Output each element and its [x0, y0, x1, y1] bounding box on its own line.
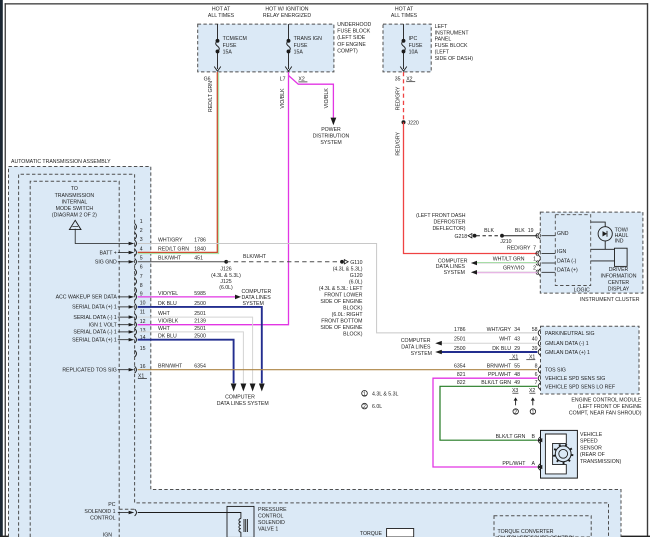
svg-text:TCM/ECM: TCM/ECM — [223, 36, 247, 42]
tow/haul indicator lamp loop — [591, 222, 615, 261]
svg-text:7: 7 — [533, 246, 536, 252]
stub arrow into pin 4 — [118, 252, 129, 254]
wire WHT 2501 pin13 down — [138, 332, 244, 383]
svg-text:BATT +: BATT + — [100, 250, 117, 256]
pin IGN 7 — [538, 250, 540, 257]
svg-text:G218: G218 — [454, 234, 467, 240]
svg-text:(LEFT FRONT DASH: (LEFT FRONT DASH — [416, 213, 466, 219]
svg-text:35: 35 — [395, 77, 401, 83]
svg-text:WHT/LT GRN: WHT/LT GRN — [493, 256, 525, 262]
svg-text:ALL TIMES: ALL TIMES — [208, 13, 235, 19]
up arrow 2 (x2 col) — [532, 400, 534, 406]
svg-text:WHT/GRY: WHT/GRY — [487, 327, 512, 333]
svg-text:TRANSMISSION: TRANSMISSION — [55, 193, 95, 199]
junction J220 — [402, 120, 406, 124]
svg-text:MODE SWITCH: MODE SWITCH — [56, 206, 94, 212]
fuse TCM/ECM 15A — [214, 24, 221, 71]
wire BLK solid J210 to cluster GND — [502, 235, 537, 237]
pin 5 arc — [135, 258, 137, 265]
svg-text:J210: J210 — [500, 239, 511, 245]
svg-text:J126: J126 — [220, 267, 231, 273]
svg-text:15: 15 — [140, 346, 146, 352]
svg-text:ALL TIMES: ALL TIMES — [391, 13, 418, 19]
svg-text:L7: L7 — [280, 77, 286, 83]
automatic transmission assembly: blue fill region — [9, 167, 622, 537]
wire RED/GRY solid from J220 to cluster IGN pin — [404, 122, 538, 253]
pin stub arrows — [118, 251, 135, 372]
svg-text:10: 10 — [140, 301, 146, 307]
svg-text:TORQUE: TORQUE — [360, 531, 383, 537]
svg-text:SOLENOID: SOLENOID — [258, 520, 285, 526]
svg-text:GMLAN DATA (-) 1: GMLAN DATA (-) 1 — [545, 341, 589, 347]
svg-text:G120: G120 — [350, 273, 363, 279]
svg-text:FUSE BLOCK: FUSE BLOCK — [435, 43, 468, 49]
svg-text:VIO/YEL: VIO/YEL — [158, 291, 178, 297]
svg-text:6: 6 — [535, 372, 538, 378]
svg-text:48: 48 — [514, 372, 520, 378]
vehicle speed sensor outer box — [541, 430, 578, 478]
svg-text:WHT/GRY: WHT/GRY — [158, 237, 183, 243]
svg-text:SERIAL DATA (+) 1: SERIAL DATA (+) 1 — [72, 338, 117, 344]
fuse TRANS IGN 15A — [285, 24, 292, 71]
fuse IPC 10A — [400, 24, 407, 71]
pin signal name labels — [56, 250, 118, 373]
svg-text:13: 13 — [140, 328, 146, 334]
svg-text:2: 2 — [363, 404, 366, 410]
up arrow 1 (x3 col) — [515, 400, 517, 406]
wire GRY/VIO to DATA (+) — [476, 271, 537, 273]
pin 11 arc — [135, 314, 137, 321]
stub arrow into pin 12 — [118, 324, 129, 326]
svg-text:DK BLU: DK BLU — [158, 334, 177, 340]
svg-text:(REAR OF: (REAR OF — [580, 452, 605, 458]
svg-text:(LEFT: (LEFT — [435, 50, 450, 56]
svg-text:FUSE BLOCK: FUSE BLOCK — [337, 29, 370, 35]
logic inner dashed box — [555, 215, 590, 286]
svg-text:RED/GRY: RED/GRY — [507, 246, 531, 252]
svg-text:INSTRUMENT CLUSTER: INSTRUMENT CLUSTER — [580, 297, 640, 303]
wire WHT 2501 pin11 down — [138, 317, 253, 383]
svg-text:BLOCK): BLOCK) — [343, 331, 363, 337]
wire WHT/GRY 1786 pin3 to ECM park/neutral — [138, 244, 538, 333]
svg-text:SYSTEM: SYSTEM — [320, 140, 341, 146]
svg-text:BLK/WHT: BLK/WHT — [243, 254, 267, 260]
pin DATA (+) 2 — [538, 269, 540, 276]
engine control module dashed box — [541, 326, 640, 394]
svg-text:RED/GRY: RED/GRY — [395, 131, 401, 155]
svg-text:PPL/WHT: PPL/WHT — [502, 461, 526, 467]
svg-text:SERIAL DATA (-) 1: SERIAL DATA (-) 1 — [73, 315, 117, 321]
svg-text:(6.0L: RIGHT: (6.0L: RIGHT — [332, 312, 364, 318]
svg-text:FUSE: FUSE — [294, 43, 308, 49]
wire BLK/LT GRN 822 to VSS pin B — [440, 386, 537, 440]
svg-text:6.0L: 6.0L — [372, 404, 382, 410]
pin 8 arc — [135, 287, 137, 294]
wire WHT 2501 GMLAN(-) from computer data lines — [441, 342, 537, 344]
svg-text:GND: GND — [557, 231, 569, 237]
svg-text:DRIVER: DRIVER — [609, 267, 629, 273]
svg-text:4.3L & 5.3L: 4.3L & 5.3L — [372, 391, 398, 397]
svg-text:FRONT BOTTOM: FRONT BOTTOM — [321, 318, 362, 324]
wire PPL/WHT 821 to VSS pin A — [433, 378, 537, 467]
label: to transmission internal mode switch — [52, 186, 97, 218]
svg-text:PRESSURE: PRESSURE — [258, 507, 287, 513]
svg-text:PARK/NEUTRAL SIG: PARK/NEUTRAL SIG — [545, 331, 595, 337]
svg-text:WHT: WHT — [158, 311, 171, 317]
transmission inner dashed box 2 (mode switch area) — [30, 181, 119, 537]
svg-text:SIDE OF DASH): SIDE OF DASH) — [435, 56, 474, 62]
svg-text:INFORMATION: INFORMATION — [601, 274, 637, 280]
svg-text:CONTROL: CONTROL — [90, 515, 115, 521]
svg-text:INSTRUMENT: INSTRUMENT — [435, 30, 470, 36]
svg-text:INTERNAL: INTERNAL — [62, 199, 88, 205]
wire to pressure control solenoid valve 1 — [138, 513, 241, 519]
svg-text:8: 8 — [535, 363, 538, 369]
svg-text:IGN: IGN — [103, 533, 112, 537]
svg-text:15A: 15A — [294, 50, 304, 56]
svg-text:8: 8 — [140, 283, 143, 289]
svg-text:58: 58 — [532, 327, 538, 333]
underlines for X labels — [509, 359, 518, 361]
svg-text:15A: 15A — [223, 50, 233, 56]
circled 2 — [513, 409, 518, 414]
svg-text:SERIAL DATA (+) 1: SERIAL DATA (+) 1 — [72, 305, 117, 311]
stub arrow into pin 16 — [118, 369, 129, 371]
svg-text:1786: 1786 — [454, 327, 466, 333]
svg-text:(LEFT FRONT OF ENGINE: (LEFT FRONT OF ENGINE — [578, 404, 642, 410]
stub arrow into pin 5 — [118, 261, 129, 263]
svg-text:(4.3L & 5.3L: LEFT: (4.3L & 5.3L: LEFT — [319, 286, 363, 292]
pin 15 arc — [135, 350, 137, 357]
svg-text:BRN/WHT: BRN/WHT — [487, 363, 512, 369]
svg-text:SIDE OF ENGINE: SIDE OF ENGINE — [320, 325, 363, 331]
svg-text:7: 7 — [140, 274, 143, 280]
svg-text:DATA (-): DATA (-) — [557, 258, 577, 264]
svg-text:1786: 1786 — [194, 237, 206, 243]
svg-text:ACC WAKEUP SER DATA: ACC WAKEUP SER DATA — [56, 295, 118, 301]
pin 13 arc — [135, 329, 137, 336]
svg-text:19: 19 — [528, 228, 534, 234]
ECM wire/pin number labels — [454, 327, 538, 394]
svg-text:(4.3L & 5.3L): (4.3L & 5.3L) — [211, 273, 241, 279]
svg-text:IGN: IGN — [557, 249, 566, 255]
off-page triangle symbol A — [69, 220, 81, 229]
page frame: left black bar — [0, 0, 3, 537]
svg-text:IGN 1 VOLT: IGN 1 VOLT — [89, 323, 118, 329]
svg-text:FRONT LOWER: FRONT LOWER — [324, 292, 362, 298]
wire name/number labels at connector — [158, 237, 206, 369]
svg-text:6354: 6354 — [454, 363, 466, 369]
svg-text:DEFLECTOR): DEFLECTOR) — [432, 226, 465, 232]
legend circled 2 — [362, 403, 368, 409]
svg-text:COMPUTER: COMPUTER — [401, 338, 431, 344]
svg-text:COMPT): COMPT) — [337, 49, 358, 55]
svg-text:J125: J125 — [220, 279, 231, 285]
svg-text:RED/GRY: RED/GRY — [395, 86, 401, 110]
ground G110 text block — [319, 260, 363, 338]
svg-text:UNDERHOOD: UNDERHOOD — [337, 22, 371, 28]
svg-text:7: 7 — [535, 380, 538, 386]
svg-text:1: 1 — [140, 219, 143, 225]
svg-text:RELAY ENERGIZED: RELAY ENERGIZED — [263, 13, 311, 19]
svg-text:VIO/BLK: VIO/BLK — [158, 319, 179, 325]
svg-text:2: 2 — [140, 228, 143, 234]
svg-text:TOS SIG: TOS SIG — [545, 368, 566, 374]
wire BLK/WHT 451 pin5 to J126 — [138, 261, 227, 263]
svg-text:2501: 2501 — [194, 326, 206, 332]
svg-text:COMPUTER: COMPUTER — [242, 289, 272, 295]
svg-text:TRANS IGN: TRANS IGN — [294, 36, 322, 42]
wire WHT/LT GRN to DATA (-) — [476, 262, 537, 264]
svg-text:IND: IND — [615, 239, 624, 245]
svg-text:PC: PC — [108, 502, 115, 508]
pin 14 arc — [135, 336, 137, 343]
svg-text:10A: 10A — [409, 50, 419, 56]
svg-text:6: 6 — [140, 265, 143, 271]
svg-text:COMPT, NEAR FAN SHROUD): COMPT, NEAR FAN SHROUD) — [569, 411, 642, 417]
svg-text:B: B — [532, 434, 536, 440]
svg-text:DATA LINES: DATA LINES — [242, 295, 272, 301]
underhood fuse block box — [198, 24, 334, 72]
svg-text:RED/LT GRN: RED/LT GRN — [208, 81, 214, 112]
wire BLK/WHT dashed J126 to G110 — [226, 261, 337, 263]
svg-text:BLK/LT GRN: BLK/LT GRN — [496, 434, 526, 440]
svg-text:POWER: POWER — [321, 127, 341, 133]
svg-text:DISPLAY: DISPLAY — [608, 287, 630, 293]
wire BRN/WHT 6354 pin16 to ECM — [138, 369, 538, 371]
svg-text:WHT: WHT — [499, 337, 512, 343]
svg-text:CENTER: CENTER — [608, 280, 630, 286]
svg-text:822: 822 — [457, 380, 466, 386]
transmission connector pins (C1) — [135, 219, 146, 373]
svg-text:LOGIC: LOGIC — [574, 288, 590, 294]
pin 6 arc — [135, 269, 137, 276]
pc solenoid pin arc — [135, 509, 137, 516]
svg-text:43: 43 — [514, 337, 520, 343]
svg-text:2: 2 — [514, 409, 517, 415]
page frame: thin border lines — [5, 3, 649, 4]
svg-text:1: 1 — [533, 256, 536, 262]
svg-text:4: 4 — [140, 247, 143, 253]
pin GND 19 — [538, 232, 540, 239]
svg-text:ENGINE CONTROL MODULE: ENGINE CONTROL MODULE — [571, 398, 642, 404]
svg-text:COMPUTER: COMPUTER — [225, 394, 255, 400]
svg-text:BLOCK): BLOCK) — [343, 305, 363, 311]
svg-text:11: 11 — [140, 310, 145, 316]
svg-text:SENSOR: SENSOR — [580, 445, 602, 451]
svg-text:(6.0L): (6.0L) — [349, 279, 363, 285]
svg-text:HOT AT: HOT AT — [212, 6, 231, 12]
automatic transmission assembly: outer dashed boundary — [9, 167, 622, 537]
wire RED/GRY dashed from IPC fuse to J220 — [403, 72, 405, 122]
pressure control solenoid valve 1 box — [227, 506, 254, 537]
svg-text:5: 5 — [140, 256, 143, 262]
wire DK BLU 2500 pin10 down — [138, 307, 262, 383]
svg-text:REPLICATED TOS SIG: REPLICATED TOS SIG — [62, 368, 116, 374]
svg-text:TORQUE CONVERTER: TORQUE CONVERTER — [498, 529, 554, 535]
svg-text:VIO/BLK: VIO/BLK — [280, 88, 286, 109]
solenoid coil — [239, 519, 248, 537]
svg-text:12: 12 — [140, 319, 146, 325]
svg-text:FUSE: FUSE — [223, 43, 237, 49]
instrument cluster dashed box — [540, 212, 643, 293]
svg-text:SYSTEM: SYSTEM — [444, 270, 465, 276]
svg-text:GMLAN DATA (+) 1: GMLAN DATA (+) 1 — [545, 350, 590, 356]
svg-text:DEFROSTER: DEFROSTER — [434, 220, 466, 226]
wire VIO/BLK branch to power distribution — [289, 76, 334, 119]
left instrument panel fuse block box — [383, 24, 431, 72]
svg-text:2500: 2500 — [194, 301, 206, 307]
svg-text:BLK/LT GRN: BLK/LT GRN — [481, 380, 511, 386]
tow/haul lamp circle — [598, 227, 612, 241]
svg-text:OF ENGINE: OF ENGINE — [337, 42, 366, 48]
svg-text:PPL/WHT: PPL/WHT — [488, 372, 512, 378]
svg-text:(DIAGRAM 2 OF 2): (DIAGRAM 2 OF 2) — [52, 213, 97, 219]
svg-text:HOT W/ IGNITION: HOT W/ IGNITION — [265, 6, 308, 12]
svg-text:A: A — [532, 461, 536, 467]
svg-text:(6.0L): (6.0L) — [219, 285, 233, 291]
svg-text:DISTRIBUTION: DISTRIBUTION — [313, 134, 350, 140]
svg-text:GRY/VIO: GRY/VIO — [503, 266, 525, 272]
pin 16 arc — [135, 366, 137, 373]
svg-text:BLK: BLK — [515, 228, 525, 234]
svg-text:3: 3 — [140, 237, 143, 243]
vehicle speed sensor inner C bracket — [545, 434, 566, 474]
stub arrow into pin 10 — [118, 306, 129, 308]
svg-text:DK BLU: DK BLU — [158, 301, 177, 307]
svg-text:34: 34 — [514, 327, 520, 333]
svg-text:BLK: BLK — [484, 228, 494, 234]
wire VIO/BLK from TRANS IGN fuse to pin 12 — [138, 72, 289, 325]
junction J210 — [500, 234, 504, 238]
wire DK BLU 2500 GMLAN(+) from computer data lines — [441, 351, 537, 353]
svg-text:SIDE OF ENGINE: SIDE OF ENGINE — [320, 299, 363, 305]
pin DATA (-) 1 — [538, 260, 540, 267]
svg-text:2501: 2501 — [454, 337, 466, 343]
pc solenoid stub arrow — [118, 512, 129, 514]
svg-text:BRN/WHT: BRN/WHT — [158, 364, 183, 370]
svg-text:2500: 2500 — [194, 334, 206, 340]
svg-text:VIO/BLK: VIO/BLK — [324, 88, 330, 109]
pin 2 arc — [135, 233, 137, 240]
svg-text:2139: 2139 — [194, 319, 206, 325]
wire VIO/YEL 5985 pin9 to computer data lines — [138, 296, 236, 298]
stub arrow into pin 11 — [118, 316, 129, 318]
dashed stub near solenoid pin area — [119, 508, 134, 510]
svg-text:IPC: IPC — [409, 36, 418, 42]
svg-text:SPEED: SPEED — [580, 439, 598, 445]
svg-text:G110: G110 — [350, 260, 362, 266]
svg-text:55: 55 — [514, 363, 520, 369]
svg-text:SYSTEM: SYSTEM — [411, 351, 432, 357]
svg-text:16: 16 — [140, 364, 146, 370]
svg-text:2501: 2501 — [194, 311, 206, 317]
svg-text:SERIAL DATA (-) 1: SERIAL DATA (-) 1 — [73, 330, 117, 336]
VSS pin arcs and arrows — [538, 437, 540, 444]
ECM pin arcs — [538, 330, 540, 390]
svg-text:VEHICLE SPD SENS SIG: VEHICLE SPD SENS SIG — [545, 376, 605, 382]
wire BLK dashed G218 to J210 — [477, 235, 501, 237]
transmission inner dashed box 1 — [19, 174, 609, 537]
svg-text:LEFT: LEFT — [435, 24, 449, 30]
svg-text:HOT AT: HOT AT — [395, 6, 414, 12]
svg-text:J220: J220 — [408, 121, 419, 127]
svg-text:DATA LINES: DATA LINES — [401, 345, 431, 351]
svg-text:FUSE: FUSE — [409, 43, 423, 49]
svg-text:6354: 6354 — [194, 364, 206, 370]
stub arrow into pin 13 — [118, 331, 129, 333]
pin 9 arc — [135, 294, 137, 301]
ground G218 symbol — [468, 234, 472, 238]
VSS gear symbol — [553, 444, 573, 464]
svg-text:2: 2 — [533, 266, 536, 272]
stub arrow into pin 9 — [118, 296, 129, 298]
ground G110 symbol — [340, 260, 344, 264]
stub arrow into pin 14 — [118, 339, 129, 341]
svg-text:49: 49 — [514, 380, 520, 386]
svg-text:AUTOMATIC TRANSMISSION ASSEMBL: AUTOMATIC TRANSMISSION ASSEMBLY — [11, 159, 111, 165]
pin 7 arc — [135, 278, 137, 285]
svg-text:5985: 5985 — [194, 291, 206, 297]
junction J126 — [224, 260, 228, 264]
svg-text:CONTROL: CONTROL — [258, 514, 283, 520]
small white box (cut) — [387, 529, 414, 537]
svg-text:SOLENOID 1: SOLENOID 1 — [84, 509, 115, 515]
wire from triangle to pin 3 — [75, 229, 128, 244]
svg-text:DATA LINES SYSTEM: DATA LINES SYSTEM — [217, 401, 269, 407]
pin 12 arc — [135, 321, 137, 328]
svg-text:VEHICLE: VEHICLE — [580, 432, 603, 438]
pin 3 arc — [135, 240, 137, 247]
page frame: bottom black line — [0, 536, 650, 537]
svg-text:TRANSMISSION): TRANSMISSION) — [580, 459, 621, 465]
svg-text:BLK/WHT: BLK/WHT — [158, 256, 182, 262]
svg-text:1840: 1840 — [194, 246, 206, 252]
svg-text:WHT: WHT — [158, 326, 171, 332]
cluster pin arcs and stubs — [536, 231, 578, 276]
wire DK BLU 2500 pin14 down — [138, 340, 234, 384]
wire RED/LT GRN from TCM/ECM fuse to pin 4 — [138, 73, 219, 254]
svg-text:PANEL: PANEL — [435, 37, 452, 43]
torque converter clutch pressure control dashed box — [494, 516, 591, 537]
pin 10 arc — [135, 304, 137, 311]
svg-text:DATA (+): DATA (+) — [557, 268, 578, 274]
svg-text:1: 1 — [531, 409, 534, 415]
svg-text:TO: TO — [71, 186, 78, 192]
svg-text:RED/LT GRN: RED/LT GRN — [158, 246, 189, 252]
svg-text:VEHICLE SPD SENS LO REF: VEHICLE SPD SENS LO REF — [545, 384, 615, 390]
circled 1 — [530, 409, 535, 414]
svg-text:(LEFT SIDE: (LEFT SIDE — [337, 35, 365, 41]
four arrows to computer data lines system — [231, 384, 237, 392]
arrow down to power distribution system — [331, 118, 337, 126]
pin 1 arc — [135, 223, 137, 230]
svg-text:451: 451 — [194, 256, 203, 262]
svg-text:40: 40 — [532, 337, 538, 343]
pin 4 arc — [135, 249, 137, 256]
svg-text:SIG GND: SIG GND — [95, 260, 117, 266]
legend circled 1 — [362, 391, 368, 397]
svg-text:1: 1 — [363, 391, 366, 397]
svg-text:821: 821 — [457, 372, 466, 378]
svg-text:(4.3L & 5.3L): (4.3L & 5.3L) — [333, 266, 363, 272]
driver information center display box — [615, 248, 628, 266]
svg-text:VALVE 1: VALVE 1 — [258, 527, 278, 533]
